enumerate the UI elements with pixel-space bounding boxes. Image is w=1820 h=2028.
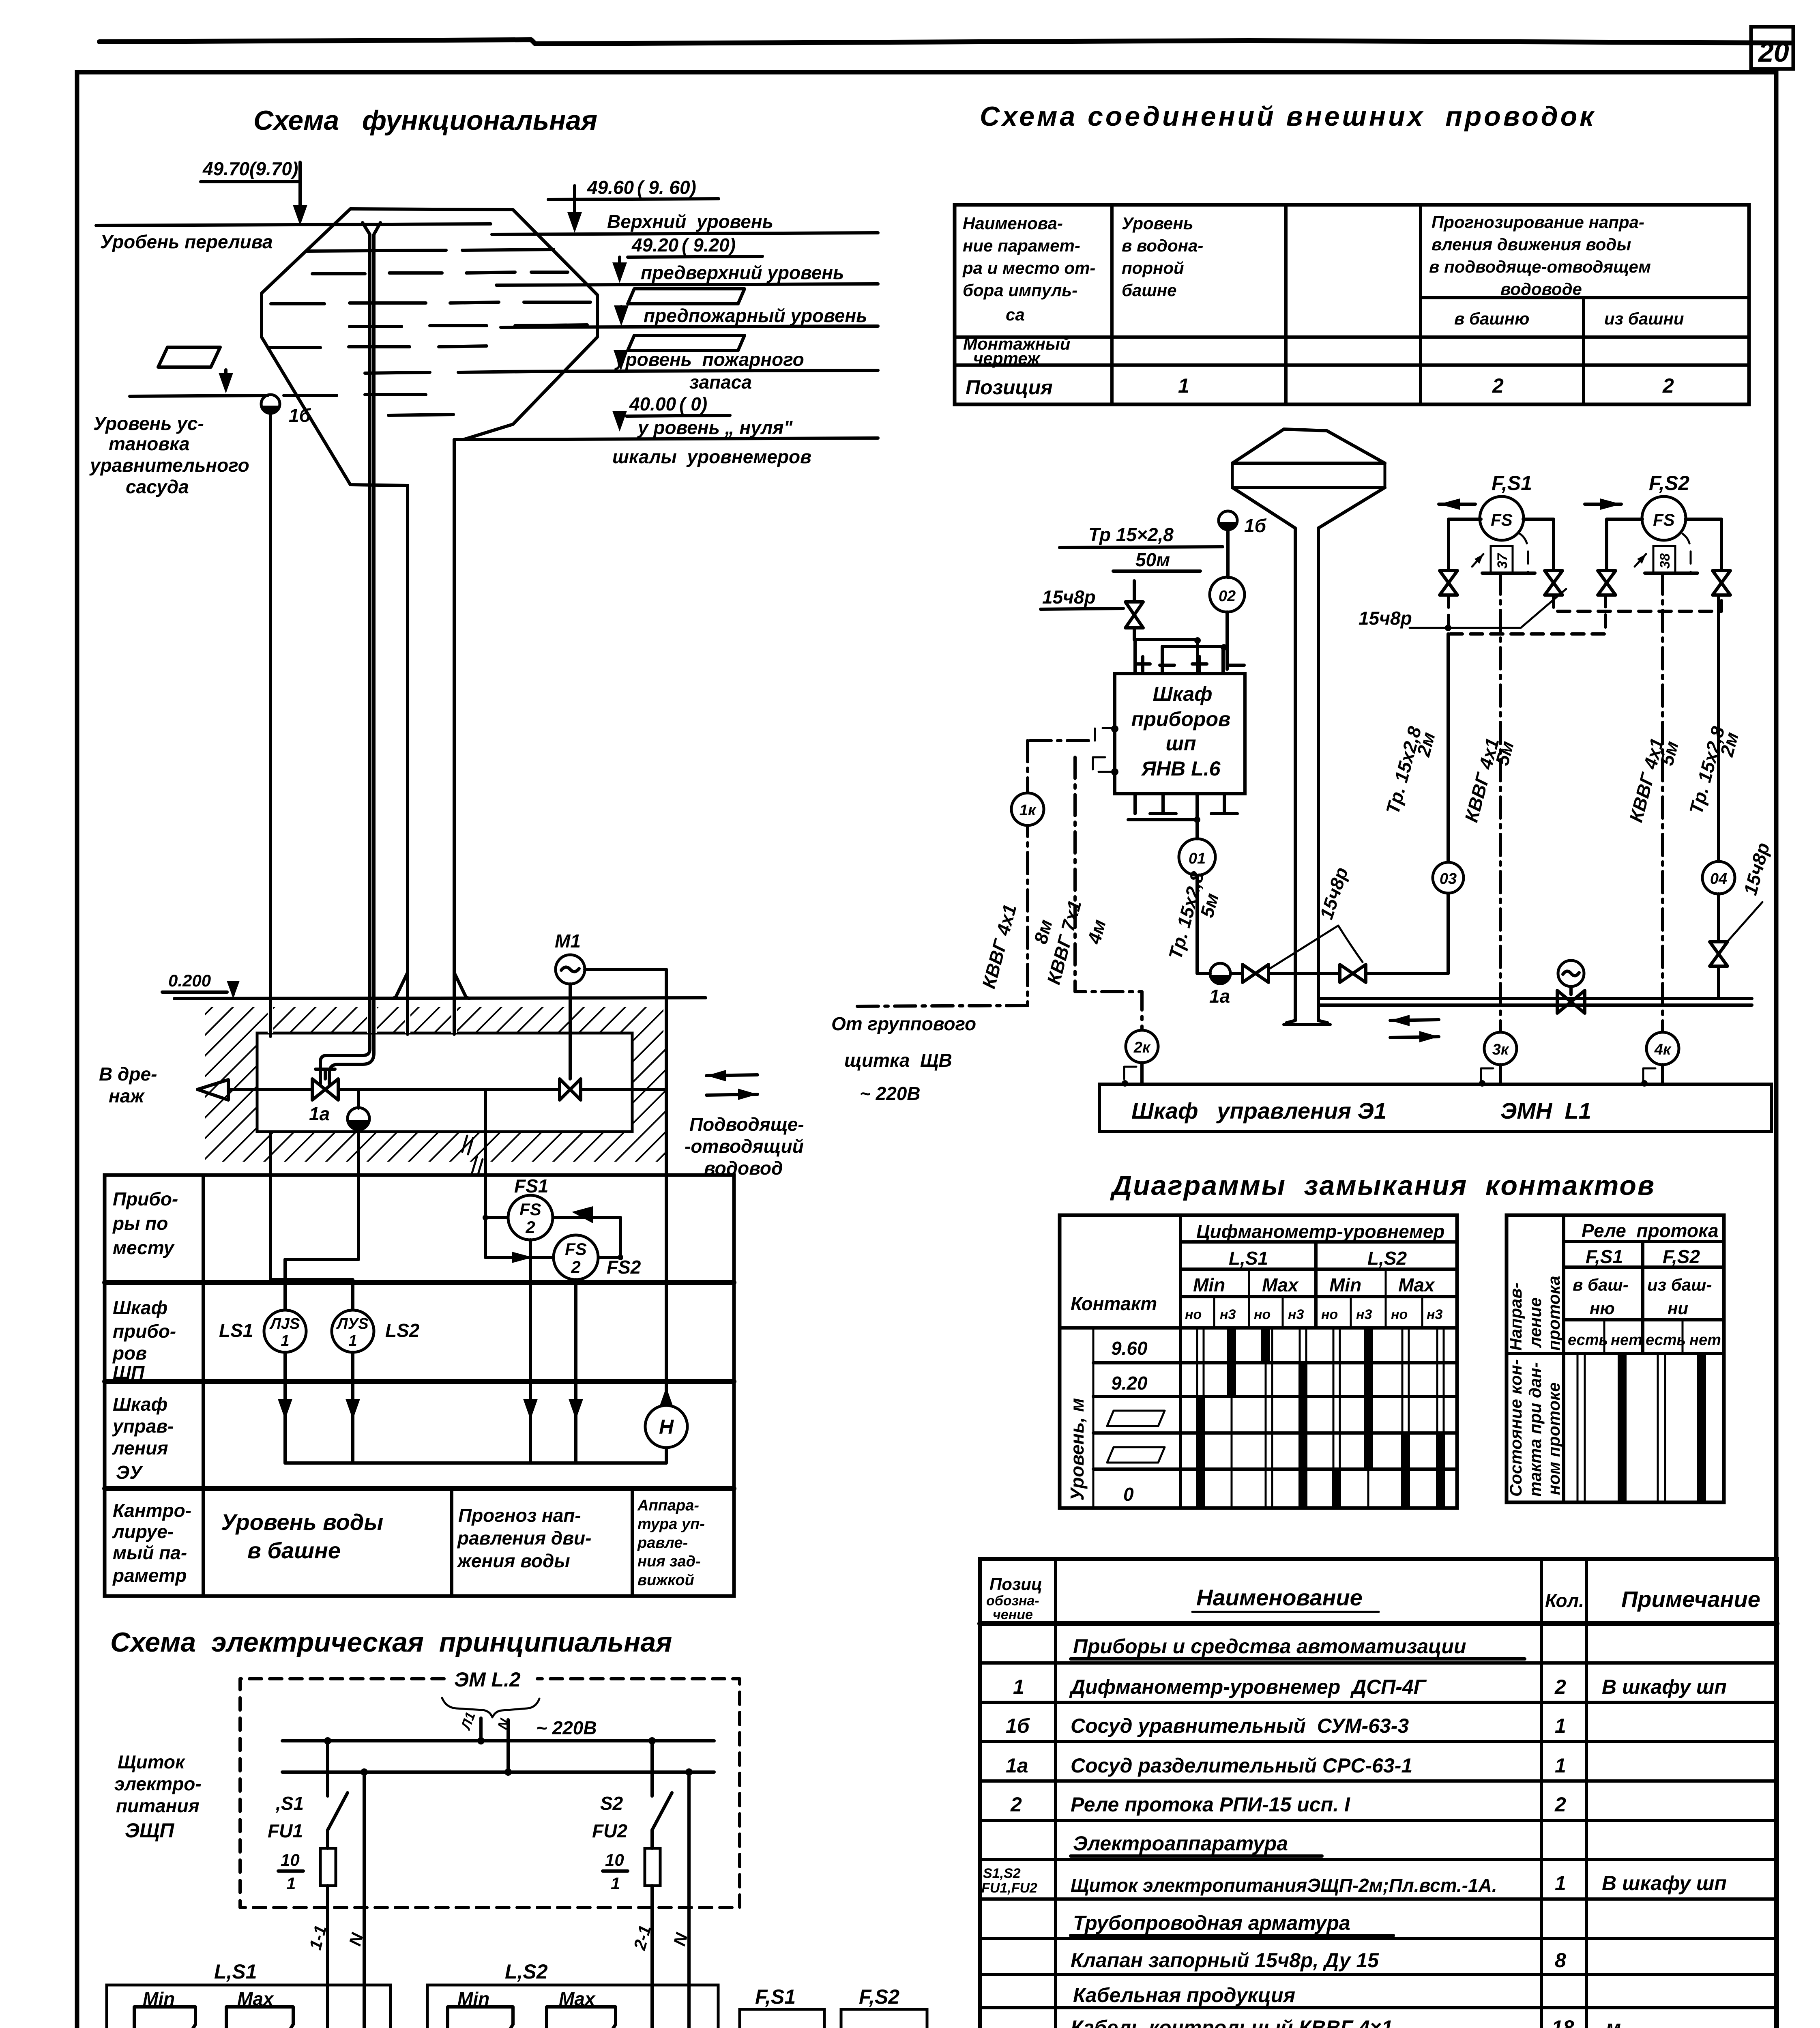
- svg-text:Уровень ус-: Уровень ус-: [93, 413, 204, 434]
- svg-text:Тр 15×2,8: Тр 15×2,8: [1088, 524, 1174, 545]
- FS2 left valve: [1598, 571, 1616, 595]
- svg-text:ров: ров: [112, 1343, 147, 1364]
- terminal box 38: [1653, 546, 1675, 573]
- svg-text:Клапан запорный 15ч8р, Ду 15: Клапан запорный 15ч8р, Ду 15: [1071, 1949, 1379, 1972]
- svg-text:Кантро-: Кантро-: [113, 1500, 191, 1521]
- LS1 Max contact: [226, 2007, 293, 2028]
- contact closed bars: [1200, 1328, 1440, 1508]
- svg-text:ры по: ры по: [112, 1213, 168, 1234]
- svg-text:FS: FS: [1653, 510, 1675, 529]
- svg-text:прибо-: прибо-: [113, 1321, 176, 1342]
- zero level line (уровень нуля): [463, 438, 878, 440]
- svg-text:0.200: 0.200: [168, 971, 211, 990]
- level switch LS2 box: [427, 1985, 718, 2028]
- svg-text:Уровень: Уровень: [1122, 214, 1193, 233]
- svg-text:10: 10: [605, 1850, 624, 1869]
- svg-text:FU2: FU2: [592, 1820, 627, 1841]
- svg-text:15ч8р: 15ч8р: [1359, 608, 1412, 629]
- svg-text:49.20( 9.20): 49.20( 9.20): [631, 234, 736, 256]
- svg-text:Шкаф: Шкаф: [113, 1297, 167, 1318]
- svg-text:чертеж: чертеж: [973, 349, 1041, 368]
- svg-text:~ 220В: ~ 220В: [536, 1717, 597, 1738]
- svg-text:есть: есть: [1568, 1332, 1608, 1349]
- tower tank roof: [1232, 429, 1385, 463]
- fuse FU2 10/1: [645, 1848, 660, 1886]
- svg-text:1: 1: [1555, 1754, 1566, 1777]
- row-3 drops and bus: [285, 1240, 666, 1463]
- cable КВВГ 4х1 5м from FS2: [1661, 573, 1664, 1031]
- svg-text:Наименование: Наименование: [1196, 1585, 1363, 1610]
- svg-text:раметр: раметр: [112, 1565, 187, 1586]
- svg-text:в водона-: в водона-: [1122, 236, 1203, 255]
- pre-fire level line (предпожарный уровень): [501, 326, 878, 327]
- impulse riser Тр.15х2,8 with 03: [1447, 634, 1450, 973]
- water dash lines: [268, 249, 590, 415]
- ground hatch around chamber: [205, 1007, 665, 1162]
- svg-text:1: 1: [1178, 374, 1189, 397]
- svg-text:1: 1: [1013, 1676, 1024, 1698]
- svg-text:электро-: электро-: [114, 1773, 202, 1794]
- tower shaft right wall: [453, 440, 456, 1132]
- svg-text:ЭМН L1: ЭМН L1: [1500, 1098, 1591, 1124]
- motorized valve on main pipe: [1557, 990, 1585, 1013]
- svg-text:Наименова-: Наименова-: [963, 214, 1063, 233]
- svg-text:F,S2: F,S2: [859, 1985, 899, 2008]
- svg-text:В шкафу шп: В шкафу шп: [1602, 1872, 1727, 1895]
- svg-text:FS2: FS2: [607, 1257, 641, 1278]
- svg-text:в баш-: в баш-: [1573, 1275, 1629, 1294]
- wire: pipe tap to flow relays: [484, 1089, 487, 1257]
- svg-text:протока: протока: [1544, 1276, 1563, 1351]
- svg-text:такта при дан-: такта при дан-: [1526, 1362, 1545, 1497]
- svg-text:запаса: запаса: [689, 372, 752, 393]
- level sensor symbol (parallelogram) at предпожарный level: [628, 289, 745, 304]
- svg-text:Примечание: Примечание: [1621, 1586, 1760, 1612]
- svg-text:L,S1: L,S1: [1229, 1248, 1268, 1269]
- svg-text:месту: месту: [113, 1237, 175, 1258]
- svg-text:Н: Н: [659, 1416, 674, 1438]
- svg-text:Аппара-: Аппара-: [637, 1497, 699, 1514]
- svg-text:Шкаф: Шкаф: [113, 1394, 167, 1415]
- svg-text:Кабельная продукция: Кабельная продукция: [1073, 1984, 1295, 2007]
- svg-text:38: 38: [1657, 553, 1673, 569]
- svg-text:4к: 4к: [1654, 1041, 1672, 1058]
- tower tank band: [1232, 463, 1385, 488]
- svg-text:1б: 1б: [1006, 1714, 1030, 1737]
- svg-text:F,S2: F,S2: [1663, 1246, 1700, 1267]
- svg-text:вижкой: вижкой: [637, 1572, 694, 1589]
- svg-text:37: 37: [1495, 552, 1510, 569]
- svg-text:49.60( 9. 60): 49.60( 9. 60): [587, 177, 696, 198]
- svg-text:Шкаф: Шкаф: [1153, 683, 1213, 705]
- svg-text:FS1: FS1: [514, 1175, 548, 1197]
- svg-text:ЛУS: ЛУS: [336, 1315, 368, 1332]
- flow switch FS1 box: [740, 2009, 824, 2028]
- parameters table: [955, 205, 1749, 404]
- svg-text:FS: FS: [1491, 510, 1513, 529]
- svg-text:сасуда: сасуда: [126, 476, 189, 497]
- svg-text:40.00( 0): 40.00( 0): [629, 393, 707, 415]
- svg-text:но: но: [1321, 1307, 1338, 1322]
- svg-text:,S1: ,S1: [275, 1793, 304, 1814]
- svg-text:уровень пожарного: уровень пожарного: [614, 349, 804, 370]
- svg-text:2: 2: [1662, 374, 1674, 397]
- svg-text:1: 1: [611, 1874, 620, 1893]
- switch S2: [648, 1737, 656, 1744]
- svg-text:1б: 1б: [1244, 515, 1267, 536]
- line break marks through hatch: [462, 1136, 483, 1175]
- svg-text:мый па-: мый па-: [113, 1542, 187, 1563]
- supply stub Л1: [479, 1718, 483, 1741]
- svg-text:Позиц: Позиц: [989, 1575, 1042, 1594]
- control cabinet Шкаф управления Э1 ЭМН L1: [1099, 1084, 1771, 1132]
- svg-text:0: 0: [1123, 1484, 1134, 1505]
- svg-text:порной: порной: [1122, 258, 1184, 277]
- level switch LS1 box: [107, 1985, 391, 2028]
- svg-text:В шкафу шп: В шкафу шп: [1602, 1676, 1727, 1698]
- svg-text:есть: есть: [1646, 1332, 1686, 1349]
- svg-text:Шкаф управления Э1: Шкаф управления Э1: [1131, 1098, 1386, 1124]
- impulse wire 1а to LS1 bubble: [285, 1175, 358, 1310]
- svg-text:ном протоке: ном протоке: [1544, 1382, 1563, 1495]
- polarity marks + - + -: [1135, 657, 1244, 671]
- svg-text:н3: н3: [1220, 1307, 1236, 1322]
- cable run circle 2к: [1126, 1030, 1158, 1063]
- svg-text:Дифманометр-уровнемер ДСП-4Г: Дифманометр-уровнемер ДСП-4Г: [1069, 1676, 1427, 1698]
- level sensor symbol (parallelogram) at equalizing vessel: [158, 347, 220, 367]
- svg-text:ЭЩП: ЭЩП: [125, 1819, 174, 1842]
- svg-text:ление: ление: [1526, 1298, 1545, 1348]
- svg-text:2к: 2к: [1133, 1039, 1151, 1056]
- svg-text:ни: ни: [1668, 1299, 1688, 1318]
- minus impulse loop into ШП: [1162, 647, 1223, 674]
- svg-text:Трубопроводная арматура: Трубопроводная арматура: [1073, 1912, 1350, 1934]
- svg-text:обозна-: обозна-: [986, 1593, 1039, 1609]
- terminal box 37: [1491, 546, 1513, 573]
- separating vessel 1а (right diagram): [1210, 963, 1230, 984]
- svg-text:L,S2: L,S2: [505, 1960, 548, 1983]
- svg-text:Электроаппаратура: Электроаппаратура: [1073, 1832, 1288, 1855]
- svg-text:В дре-: В дре-: [99, 1063, 157, 1085]
- overflow funnel and pipe: [363, 223, 370, 1041]
- svg-text:1: 1: [1555, 1714, 1566, 1737]
- svg-text:3к: 3к: [1492, 1041, 1509, 1058]
- contact diagram table (уровнемер): [1060, 1215, 1457, 1508]
- switch S1: [324, 1737, 331, 1744]
- supply stub N: [507, 1720, 510, 1772]
- svg-text:управ-: управ-: [112, 1416, 174, 1437]
- svg-text:ЭМ L.2: ЭМ L.2: [454, 1668, 521, 1691]
- svg-text:-отводящий: -отводящий: [685, 1136, 804, 1157]
- svg-text:водоводе: водоводе: [1500, 279, 1582, 299]
- svg-text:из башни: из башни: [1604, 309, 1684, 328]
- sheet number box 20: [1751, 27, 1793, 69]
- svg-text:1: 1: [281, 1332, 289, 1349]
- svg-text:Состояние кон-: Состояние кон-: [1506, 1359, 1525, 1497]
- svg-text:1: 1: [1555, 1872, 1566, 1895]
- svg-text:ния зад-: ния зад-: [637, 1553, 701, 1570]
- dashed impulse link to FS2 right valve: [1554, 595, 1721, 611]
- svg-text:L,S2: L,S2: [1367, 1248, 1407, 1269]
- svg-text:F,S2: F,S2: [1649, 472, 1689, 494]
- svg-text:Позиция: Позиция: [966, 376, 1053, 399]
- svg-text:Схема электрическая принципи: Схема электрическая принципиальная: [110, 1627, 672, 1658]
- shut-off valve right of shaft: [1340, 965, 1366, 982]
- svg-text:Сосуд разделительный СРС-63-1: Сосуд разделительный СРС-63-1: [1071, 1754, 1412, 1777]
- pipe run circle 04: [1702, 861, 1735, 894]
- svg-text:FU1: FU1: [268, 1820, 303, 1841]
- svg-text:Min: Min: [1329, 1274, 1361, 1295]
- plus impulse loop into ШП: [1134, 640, 1198, 674]
- svg-text:Реле протока: Реле протока: [1582, 1220, 1719, 1241]
- svg-text:из баш-: из баш-: [1647, 1275, 1712, 1294]
- svg-text:н3: н3: [1356, 1307, 1372, 1322]
- svg-text:бора импуль-: бора импуль-: [963, 281, 1077, 300]
- svg-text:03: 03: [1440, 870, 1457, 887]
- FS2 right valve: [1713, 571, 1730, 595]
- separating vessel (сосуд разделительный) under 1а: [357, 1089, 360, 1108]
- svg-text:Цифманометр-уровнемер: Цифманометр-уровнемер: [1196, 1221, 1444, 1242]
- svg-text:1а: 1а: [309, 1103, 330, 1124]
- svg-text:Щиток: Щиток: [118, 1751, 186, 1772]
- level switch bubble LS1: [264, 1310, 306, 1352]
- svg-text:Схема функциональная: Схема функциональная: [253, 105, 597, 136]
- svg-text:м: м: [1606, 2016, 1621, 2028]
- svg-text:1б: 1б: [289, 405, 311, 426]
- svg-text:S1,S2: S1,S2: [983, 1866, 1021, 1881]
- shut-off valve 15ч8р near ШП: [1125, 602, 1143, 628]
- svg-text:2: 2: [525, 1218, 535, 1237]
- svg-text:тура уп-: тура уп-: [637, 1516, 705, 1533]
- equalizing vessel 1б (right diagram): [1219, 511, 1237, 530]
- svg-text:От группового: От группового: [831, 1013, 976, 1034]
- motorized gate valve: [560, 1079, 581, 1100]
- svg-text:Прогноз нап-: Прогноз нап-: [458, 1505, 581, 1526]
- shut-off valve under 04: [1710, 942, 1728, 966]
- svg-text:L,S1: L,S1: [214, 1960, 257, 1983]
- cable run circle 4к: [1646, 1032, 1679, 1065]
- svg-text:1а: 1а: [1209, 986, 1230, 1007]
- column thin lines + thick bars: [1197, 1328, 1444, 1508]
- svg-text:Уровень, м: Уровень, м: [1067, 1398, 1088, 1501]
- FS1 right valve: [1545, 571, 1562, 595]
- flow arrows on main pipe: [1390, 1020, 1439, 1038]
- svg-text:в башне: в башне: [247, 1538, 341, 1563]
- svg-text:ра и место от-: ра и место от-: [962, 258, 1095, 277]
- svg-text:Уровень воды: Уровень воды: [221, 1509, 383, 1535]
- svg-text:Верхний уровень: Верхний уровень: [607, 211, 773, 232]
- svg-text:са: са: [1006, 305, 1025, 324]
- water tank (бак) outline right half: [350, 209, 597, 440]
- valve 1а: [312, 1079, 338, 1100]
- svg-text:башне: башне: [1122, 281, 1176, 300]
- svg-text:ЭУ: ЭУ: [116, 1462, 144, 1483]
- level switch bubble LS2: [332, 1310, 374, 1352]
- svg-text:Схема соединений внешних пров: Схема соединений внешних проводок: [980, 101, 1596, 132]
- svg-text:Направ-: Направ-: [1506, 1283, 1525, 1351]
- tower shaft left wall: [406, 486, 409, 1132]
- svg-text:Max: Max: [1262, 1274, 1299, 1295]
- svg-text:F,S1: F,S1: [1492, 472, 1532, 494]
- contact diagram table (реле протока): [1507, 1215, 1724, 1502]
- cable КВВГ 4х1 5м from FS1: [1499, 573, 1502, 1031]
- brace over supply wires: [442, 1698, 539, 1717]
- impulse wire 1б to LS2 bubble: [270, 1175, 353, 1310]
- LS2 Max contact: [547, 2007, 616, 2028]
- svg-text:2: 2: [1554, 1793, 1566, 1816]
- svg-text:Кол.: Кол.: [1545, 1590, 1584, 1611]
- svg-text:Сосуд уравнительный СУМ-63-3: Сосуд уравнительный СУМ-63-3: [1071, 1714, 1409, 1737]
- svg-text:9.60: 9.60: [1111, 1338, 1148, 1359]
- svg-text:равления дви-: равления дви-: [457, 1527, 591, 1549]
- LS2 Min contact: [448, 2007, 513, 2028]
- svg-text:FS: FS: [519, 1200, 541, 1219]
- svg-text:шп: шп: [1166, 732, 1196, 755]
- svg-text:Щиток электропитанияЭЩП-2м;Пл.: Щиток электропитанияЭЩП-2м;Пл.вст.-1А.: [1071, 1875, 1497, 1896]
- svg-text:2: 2: [571, 1257, 580, 1276]
- svg-text:но: но: [1185, 1307, 1202, 1322]
- impulse riser Тр.15х2,8 with 04: [1717, 595, 1720, 861]
- svg-text:~ 220В: ~ 220В: [860, 1083, 921, 1104]
- impulse line from 1б down to instruments table: [269, 413, 272, 1175]
- svg-text:Прибо-: Прибо-: [113, 1188, 178, 1209]
- svg-text:чение: чение: [993, 1607, 1033, 1622]
- instrument cabinet ШП ЯНВ L.6: [1115, 674, 1245, 794]
- svg-text:15ч8р: 15ч8р: [1042, 586, 1096, 608]
- svg-text:LS2: LS2: [385, 1320, 420, 1341]
- svg-text:М1: М1: [555, 930, 581, 952]
- svg-text:Max: Max: [1398, 1274, 1436, 1295]
- pipes crossing into chamber (white gaps): [270, 1003, 666, 1038]
- fire reserve level line (уровень пожарного запаса): [498, 370, 878, 372]
- flow direction arrows: [706, 1075, 758, 1095]
- svg-text:Подводяще-: Подводяще-: [689, 1114, 804, 1135]
- signal wires down to control cabinet row: [283, 1352, 287, 1463]
- water tank outline left half: [262, 209, 408, 486]
- svg-text:уравнительного: уравнительного: [89, 455, 249, 476]
- main supply pipe: [1318, 997, 1752, 1000]
- svg-text:приборов: приборов: [1131, 708, 1230, 730]
- svg-text:Диаграммы замыкания контакто: Диаграммы замыкания контактов: [1110, 1170, 1655, 1201]
- svg-text:2: 2: [1554, 1676, 1566, 1698]
- flow switch FS2 box: [841, 2009, 927, 2028]
- svg-text:Приборы и средства автоматизац: Приборы и средства автоматизации: [1073, 1635, 1466, 1658]
- overflow level line (Уровень перелива): [96, 224, 491, 226]
- svg-text:49.70(9.70): 49.70(9.70): [202, 158, 298, 179]
- svg-text:1а: 1а: [1006, 1754, 1028, 1777]
- sheet top edge line: [99, 40, 1792, 44]
- svg-text:Реле протока РПИ-15 исп. I: Реле протока РПИ-15 исп. I: [1071, 1793, 1350, 1816]
- underground chamber walls: [257, 1033, 632, 1132]
- svg-text:нет: нет: [1689, 1332, 1721, 1349]
- svg-text:лируе-: лируе-: [112, 1521, 174, 1542]
- svg-text:вления движения воды: вления движения воды: [1432, 235, 1631, 254]
- svg-text:1: 1: [286, 1874, 296, 1893]
- level rows: [1092, 1328, 1095, 1508]
- svg-text:FS: FS: [565, 1240, 587, 1259]
- wire M1 to controller H: [585, 969, 666, 1403]
- svg-text:предверхний уровень: предверхний уровень: [641, 262, 844, 283]
- svg-text:ню: ню: [1590, 1299, 1615, 1318]
- FS2 relay bubble: [1642, 496, 1686, 540]
- svg-text:нет: нет: [1611, 1332, 1642, 1349]
- svg-text:Контакт: Контакт: [1071, 1293, 1157, 1314]
- shut-off valve left of shaft: [1243, 965, 1268, 982]
- svg-text:8: 8: [1555, 1949, 1566, 1972]
- svg-text:н3: н3: [1288, 1307, 1304, 1322]
- svg-text:но: но: [1391, 1307, 1408, 1322]
- dashed impulse link to FS2 left valve: [1449, 595, 1605, 634]
- svg-text:н3: н3: [1427, 1307, 1443, 1322]
- svg-text:Кабель контрольный КВВГ 4×1: Кабель контрольный КВВГ 4×1: [1071, 2016, 1393, 2028]
- svg-text:S2: S2: [600, 1793, 623, 1814]
- dashed boundary of power panel ЭЩП: [240, 1679, 740, 1908]
- flow relay FS1 (FS/2): [508, 1195, 553, 1240]
- svg-text:1к: 1к: [1019, 802, 1037, 819]
- svg-text:FU1,FU2: FU1,FU2: [981, 1880, 1037, 1896]
- controller H: [645, 1405, 687, 1448]
- svg-text:ШП: ШП: [113, 1362, 145, 1383]
- svg-text:питания: питания: [116, 1795, 200, 1816]
- wire N left drop: [361, 1768, 368, 1776]
- drain arrow (В дренаж): [197, 1080, 228, 1100]
- upper level line (Верхний уровень): [492, 233, 878, 234]
- svg-text:в башню: в башню: [1454, 309, 1529, 328]
- 01 circle + line to 1a: [1195, 820, 1199, 839]
- flow relay FS2 (FS/2): [554, 1235, 598, 1280]
- svg-text:равле-: равле-: [637, 1534, 688, 1551]
- cable run circle 1к: [1011, 793, 1044, 825]
- svg-text:1: 1: [348, 1332, 357, 1349]
- cable КВВГ 7х1 4м from ШП: [1093, 757, 1112, 772]
- svg-text:в подводяще-отводящем: в подводяще-отводящем: [1429, 257, 1651, 276]
- svg-text:9.20: 9.20: [1111, 1373, 1148, 1394]
- pre-upper level line (предверхний уровень): [496, 284, 878, 285]
- bill of materials table: [980, 1559, 1777, 2028]
- level sensor symbol (parallelogram) at пожарный level: [628, 335, 745, 350]
- svg-text:шкалы уровнемеров: шкалы уровнемеров: [612, 446, 811, 467]
- equalizing vessel 1б: [261, 395, 280, 413]
- svg-text:18: 18: [1552, 2016, 1574, 2028]
- svg-text:Min: Min: [1193, 1274, 1225, 1295]
- svg-text:F,S1: F,S1: [755, 1985, 796, 2008]
- svg-text:2: 2: [1492, 374, 1504, 397]
- svg-text:LS1: LS1: [219, 1320, 253, 1341]
- svg-text:наж: наж: [109, 1085, 145, 1106]
- LS1 Min contact: [134, 2007, 195, 2028]
- svg-text:Уробень перелива: Уробень перелива: [100, 231, 273, 252]
- svg-text:ЛJS: ЛJS: [269, 1315, 300, 1332]
- svg-text:жения воды: жения воды: [456, 1550, 570, 1571]
- instruments allocation table: [105, 1175, 734, 1596]
- svg-text:тановка: тановка: [109, 433, 190, 454]
- svg-text:ЯНВ L.6: ЯНВ L.6: [1141, 757, 1221, 780]
- svg-text:но: но: [1254, 1307, 1271, 1322]
- FS1 left valve: [1440, 571, 1457, 595]
- svg-text:ние парамет-: ние парамет-: [963, 236, 1080, 255]
- drain / supply pipe: [228, 1088, 312, 1091]
- svg-text:Прогнозирование напра-: Прогнозирование напра-: [1432, 213, 1644, 232]
- pipe run circle 01: [1179, 839, 1215, 875]
- svg-text:01: 01: [1189, 850, 1206, 867]
- water level dashes: [307, 249, 554, 251]
- svg-text:F,S1: F,S1: [1586, 1246, 1623, 1267]
- svg-text:ления: ления: [112, 1437, 168, 1459]
- FS1 relay bubble: [1480, 496, 1524, 540]
- svg-text:02: 02: [1219, 588, 1236, 605]
- bus L: [282, 1739, 714, 1742]
- svg-text:у ровень „ нуля": у ровень „ нуля": [637, 417, 793, 438]
